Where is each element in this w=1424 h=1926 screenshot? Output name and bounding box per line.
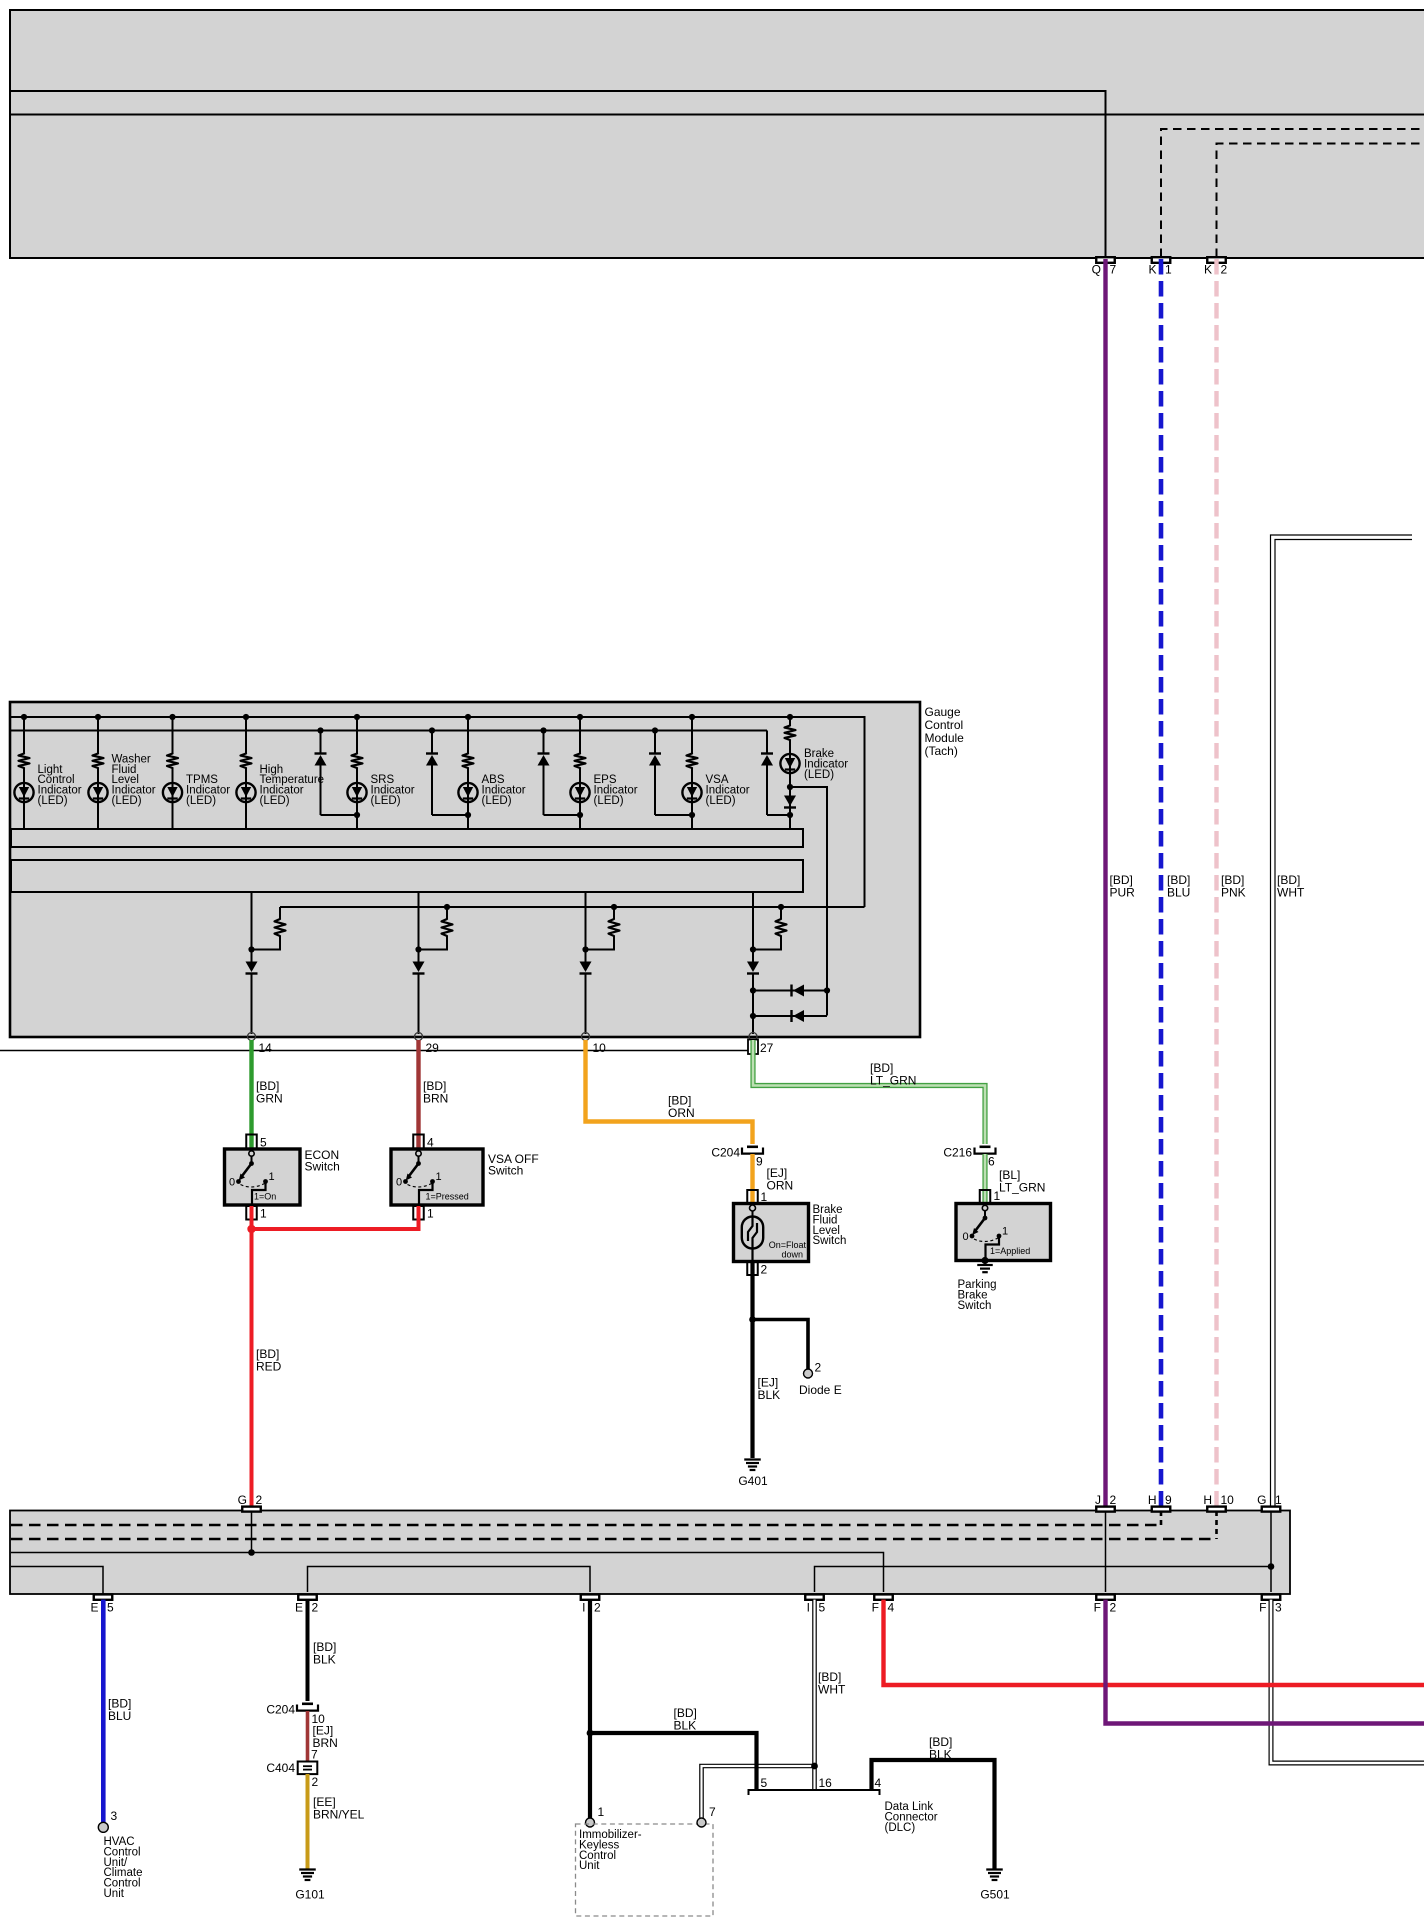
svg-text:29: 29 xyxy=(426,1041,440,1055)
SRS Indicator (LED) column xyxy=(347,714,414,829)
svg-text:F: F xyxy=(1259,1601,1266,1615)
connector G1 (top of band) xyxy=(1257,1493,1282,1512)
wire: internal solid to Q7 xyxy=(11,91,1106,257)
wire [EJ] BRN C204 to C404 xyxy=(308,1711,338,1762)
Light Indicator (LED) column xyxy=(14,714,81,829)
ground G401 xyxy=(738,1460,768,1489)
svg-text:I: I xyxy=(807,1601,810,1615)
internal link G1 to F3 xyxy=(1270,1509,1272,1592)
svg-text:GRN: GRN xyxy=(256,1092,283,1106)
svg-text:1=On: 1=On xyxy=(254,1192,276,1202)
svg-text:WHT: WHT xyxy=(1277,886,1305,900)
Parking Brake Switch xyxy=(956,1204,1051,1312)
connector F3 (bottom of band) xyxy=(1259,1594,1282,1614)
svg-text:BRN: BRN xyxy=(423,1092,448,1106)
svg-text:Module: Module xyxy=(925,731,965,745)
svg-text:7: 7 xyxy=(709,1805,716,1819)
internal link J2 to F2 xyxy=(1105,1509,1107,1592)
svg-text:(LED): (LED) xyxy=(804,769,834,781)
output column to pin 29 xyxy=(413,892,425,1034)
svg-text:2: 2 xyxy=(1110,1493,1117,1507)
output column to pin 10 xyxy=(580,892,592,1034)
svg-text:0: 0 xyxy=(963,1231,969,1243)
svg-text:(LED): (LED) xyxy=(706,795,736,807)
svg-text:BLU: BLU xyxy=(1167,886,1190,900)
connector I2 (bottom of band) xyxy=(581,1594,601,1614)
protection diode column feeding Brake LED xyxy=(761,731,790,816)
wire [EE] BRN/YEL C404 to G101 xyxy=(308,1774,365,1869)
svg-text:Switch: Switch xyxy=(488,1164,523,1178)
svg-text:16: 16 xyxy=(819,1776,833,1790)
svg-text:1: 1 xyxy=(269,1171,275,1183)
svg-text:2: 2 xyxy=(1110,1601,1117,1615)
svg-text:(LED): (LED) xyxy=(186,795,216,807)
svg-text:27: 27 xyxy=(760,1041,774,1055)
svg-text:1=Applied: 1=Applied xyxy=(990,1246,1030,1256)
svg-text:1: 1 xyxy=(598,1805,605,1819)
in-line connector C204 (pin 10) xyxy=(266,1703,325,1727)
svg-text:0: 0 xyxy=(396,1177,402,1189)
svg-text:BLK: BLK xyxy=(313,1653,336,1667)
svg-text:(DLC): (DLC) xyxy=(885,1822,916,1834)
connector H9 (top of band) xyxy=(1148,1493,1172,1512)
connector F2 (bottom of band) xyxy=(1094,1594,1117,1614)
svg-text:Switch: Switch xyxy=(813,1235,847,1247)
svg-text:BLK: BLK xyxy=(929,1748,952,1762)
ECON Switch xyxy=(225,1148,340,1205)
protection diode column feeding LED at x=357 xyxy=(315,727,358,815)
High Indicator (LED) column xyxy=(236,714,324,829)
svg-text:(LED): (LED) xyxy=(594,795,624,807)
svg-text:G101: G101 xyxy=(295,1888,325,1902)
svg-text:(LED): (LED) xyxy=(371,795,401,807)
svg-text:1=Pressed: 1=Pressed xyxy=(426,1192,469,1202)
wire [BD] BLK DLC pin 4 to G501 xyxy=(872,1735,995,1869)
output column to pin 27 xyxy=(747,892,759,1034)
Data Link Connector (DLC) bracket xyxy=(749,1776,938,1834)
svg-text:(LED): (LED) xyxy=(112,795,142,807)
svg-text:BLK: BLK xyxy=(674,1719,697,1733)
top junction band (off-page connector block) xyxy=(10,10,1424,258)
in-line connector C404 (pin 2) xyxy=(266,1761,318,1789)
module pin 14 xyxy=(248,1033,273,1056)
wire [BD] WHT I5 to DLC pin 16 and immobilizer pin 7 xyxy=(702,1600,846,1818)
svg-text:(LED): (LED) xyxy=(260,795,290,807)
internal bus B xyxy=(11,730,767,732)
wire [BD] PNK dashed from K2 to H10 xyxy=(1217,259,1246,1507)
svg-text:On=Float: On=Float xyxy=(769,1240,807,1250)
wire [BD] ORN pin10 to C204 xyxy=(586,1040,753,1144)
svg-text:LT_GRN: LT_GRN xyxy=(999,1181,1045,1195)
internal rectangle bar 1 xyxy=(11,829,803,847)
internal link E2 to I2 xyxy=(308,1567,591,1593)
svg-text:1: 1 xyxy=(1165,263,1172,277)
Brake Fluid Level Switch xyxy=(734,1204,847,1262)
svg-text:BRN/YEL: BRN/YEL xyxy=(313,1808,365,1822)
svg-text:G: G xyxy=(1257,1493,1266,1507)
output column to pin 14 xyxy=(246,892,258,1034)
wire [BD] PUR from Q7 to J2 xyxy=(1106,259,1136,1507)
svg-text:5: 5 xyxy=(107,1601,114,1615)
svg-text:Diode E: Diode E xyxy=(799,1383,842,1397)
svg-text:(LED): (LED) xyxy=(38,795,68,807)
Washer Fluid Indicator (LED) column xyxy=(88,714,155,829)
terminal 4 of VSA OFF switch xyxy=(413,1135,434,1152)
svg-text:Unit: Unit xyxy=(579,1860,600,1872)
wire stub from page edge to pin 27 terminal xyxy=(0,1050,748,1052)
output driver for pin 29: pull-up resistor branch xyxy=(419,904,453,950)
svg-text:7: 7 xyxy=(1110,263,1117,277)
svg-text:3: 3 xyxy=(111,1809,118,1823)
connector Q7 xyxy=(1092,257,1117,276)
wire: internal dashed to K1 xyxy=(1161,129,1424,257)
svg-text:6: 6 xyxy=(988,1155,995,1169)
terminal 2 of brake fluid level switch xyxy=(747,1262,767,1277)
svg-text:E: E xyxy=(90,1601,98,1615)
svg-text:4: 4 xyxy=(888,1601,895,1615)
svg-text:H: H xyxy=(1203,1493,1212,1507)
wire: internal solid bus across band xyxy=(11,114,1424,116)
terminal 1 of VSA OFF switch xyxy=(413,1206,434,1221)
svg-text:14: 14 xyxy=(259,1041,273,1055)
svg-text:(LED): (LED) xyxy=(482,795,512,807)
svg-text:3: 3 xyxy=(1275,1601,1282,1615)
terminal 1 of parking brake switch xyxy=(980,1189,1001,1204)
terminal at module pin 27 xyxy=(748,1040,758,1055)
internal link I5 to F3 xyxy=(815,1563,1275,1592)
connector G2 (top of band) xyxy=(238,1493,263,1512)
svg-text:2: 2 xyxy=(1221,263,1228,277)
svg-text:10: 10 xyxy=(593,1041,607,1055)
module pin 10 xyxy=(582,1033,607,1056)
svg-text:BLU: BLU xyxy=(108,1709,131,1723)
protection diode column feeding LED at x=580 xyxy=(538,727,581,815)
chassis ground of parking brake switch xyxy=(977,1265,993,1272)
connector K2 xyxy=(1204,257,1228,276)
svg-text:PNK: PNK xyxy=(1221,886,1246,900)
in-line connector C204 (pin 9) xyxy=(711,1146,763,1169)
internal power bus A xyxy=(11,717,865,907)
svg-text:2: 2 xyxy=(312,1601,319,1615)
svg-text:1: 1 xyxy=(260,1207,267,1221)
svg-text:Switch: Switch xyxy=(305,1160,340,1174)
svg-text:Control: Control xyxy=(925,718,964,732)
svg-text:C204: C204 xyxy=(266,1703,295,1717)
svg-text:Switch: Switch xyxy=(958,1300,992,1312)
Gauge Control Module (Tach) box xyxy=(10,702,964,1037)
svg-text:1: 1 xyxy=(427,1207,434,1221)
connector J2 (top of band) xyxy=(1095,1493,1117,1512)
TPMS Indicator (LED) column xyxy=(163,714,230,829)
wire [BD] WHT (double line) from top right to G1 xyxy=(1271,535,1413,1507)
terminal 1 of brake fluid level switch xyxy=(747,1190,767,1204)
Brake Indicator (LED) column xyxy=(780,714,848,829)
wire [BD] LT_GRN pin27 to C216 xyxy=(753,1040,985,1144)
immobilizer-keyless control unit pin 7 xyxy=(697,1805,716,1827)
svg-text:E: E xyxy=(295,1601,303,1615)
wire [EJ] ORN C204 to brake fluid level switch xyxy=(753,1154,794,1204)
wire [BD] BRN pin29 to VSA OFF switch xyxy=(419,1040,449,1151)
svg-text:ORN: ORN xyxy=(668,1106,695,1120)
wire [BD] BLU E5 to HVAC xyxy=(103,1600,131,1823)
svg-text:2: 2 xyxy=(761,1263,768,1277)
EPS Indicator (LED) column xyxy=(570,714,637,829)
svg-text:WHT: WHT xyxy=(818,1683,846,1697)
svg-text:F: F xyxy=(1094,1601,1101,1615)
module pin 29 xyxy=(415,1033,440,1056)
terminal 1 of ECON switch xyxy=(246,1206,267,1221)
VSA OFF Switch xyxy=(391,1149,539,1205)
svg-text:2: 2 xyxy=(815,1361,822,1375)
internal rectangle bar 2 xyxy=(11,860,803,892)
ground G501 xyxy=(980,1870,1010,1902)
svg-text:RED: RED xyxy=(256,1360,282,1374)
internal dashed bus 1 (to H9) xyxy=(11,1511,1161,1525)
Immobilizer-Keyless Control Unit (dashed box) xyxy=(576,1824,714,1916)
wire [BD] WHT F3 to right edge (double line) xyxy=(1271,1600,1424,1763)
ABS Indicator (LED) column xyxy=(458,714,525,829)
branch wire to Diode E xyxy=(753,1320,809,1370)
svg-text:7: 7 xyxy=(311,1748,318,1762)
VSA Indicator (LED) column xyxy=(682,714,749,829)
blocking diode to pin 27 (upper) xyxy=(750,985,827,997)
wire [EJ] BLK to G401 xyxy=(749,1262,780,1458)
svg-text:LT_GRN: LT_GRN xyxy=(870,1074,916,1088)
svg-text:1: 1 xyxy=(1002,1226,1008,1238)
svg-text:5: 5 xyxy=(761,1776,768,1790)
wire [BD] GRN pin14 to ECON switch xyxy=(252,1040,283,1151)
HVAC control unit pin 3 xyxy=(98,1809,142,1900)
svg-text:Q: Q xyxy=(1092,263,1101,277)
protection diode column feeding LED at x=692 xyxy=(649,727,692,815)
svg-text:H: H xyxy=(1148,1493,1157,1507)
diode below Brake LED xyxy=(784,796,796,808)
svg-text:2: 2 xyxy=(312,1775,319,1789)
svg-text:Unit: Unit xyxy=(104,1888,125,1900)
wire: internal dashed to K2 xyxy=(1217,144,1424,258)
wire [BD] BLK I2 to immobilizer and DLC pin 5 xyxy=(587,1600,757,1818)
svg-text:C204: C204 xyxy=(711,1146,740,1160)
connector F4 (bottom of band) xyxy=(872,1594,895,1614)
svg-text:ORN: ORN xyxy=(767,1179,794,1193)
bottom junction band xyxy=(10,1511,1290,1595)
svg-text:2: 2 xyxy=(256,1493,263,1507)
svg-text:G401: G401 xyxy=(738,1474,768,1488)
svg-text:K: K xyxy=(1204,263,1212,277)
terminal 5 of ECON switch xyxy=(246,1135,267,1152)
svg-text:I: I xyxy=(582,1601,585,1615)
protection diode column feeding LED at x=468 xyxy=(426,727,468,815)
in-line connector C216 (pin 6) xyxy=(943,1146,995,1169)
svg-text:C216: C216 xyxy=(943,1146,972,1160)
internal link to E5 xyxy=(11,1567,103,1595)
wire: brake LED anode to diode ladder xyxy=(790,787,830,1016)
connector I5 (bottom of band) xyxy=(805,1594,825,1614)
module pin 27 xyxy=(749,1033,774,1056)
svg-text:Gauge: Gauge xyxy=(925,705,961,719)
svg-text:9: 9 xyxy=(1165,1493,1172,1507)
internal dashed bus 2 (to H10) xyxy=(11,1511,1217,1539)
immobilizer-keyless control unit pin 1 xyxy=(586,1805,605,1827)
wire [BD] PUR F2 to right edge xyxy=(1106,1600,1424,1724)
wire [BL] LT_GRN C216 to parking brake switch xyxy=(985,1154,1045,1204)
svg-text:C404: C404 xyxy=(266,1761,295,1775)
svg-text:0: 0 xyxy=(229,1177,235,1189)
ground G101 xyxy=(295,1870,325,1902)
output driver for pin 14: pull-up resistor branch xyxy=(252,907,286,950)
svg-text:4: 4 xyxy=(875,1776,882,1790)
connector H10 (top of band) xyxy=(1203,1493,1234,1512)
svg-text:(Tach): (Tach) xyxy=(925,744,958,758)
svg-text:2: 2 xyxy=(594,1601,601,1615)
svg-text:down: down xyxy=(781,1250,803,1260)
blocking diode to pin 27 (lower) xyxy=(750,1010,827,1022)
svg-text:BLK: BLK xyxy=(758,1388,781,1402)
svg-text:1: 1 xyxy=(994,1189,1001,1203)
internal bus E (resistor supply) xyxy=(280,906,865,908)
svg-text:1: 1 xyxy=(1275,1493,1282,1507)
svg-text:G501: G501 xyxy=(980,1888,1010,1902)
Diode E terminal 2 xyxy=(799,1361,842,1398)
wire [BD] BLU dashed from K1 to H9 xyxy=(1161,259,1190,1507)
svg-text:F: F xyxy=(872,1601,879,1615)
connector K1 xyxy=(1148,257,1172,276)
output driver for pin 10: pull-up resistor branch xyxy=(586,904,620,950)
svg-text:10: 10 xyxy=(1221,1493,1235,1507)
svg-text:J: J xyxy=(1095,1493,1101,1507)
internal link G2 to F4 xyxy=(11,1509,884,1592)
wire [BD] BLK E2 to C204 xyxy=(308,1600,337,1701)
connector E2 (bottom of band) xyxy=(295,1594,319,1614)
svg-text:PUR: PUR xyxy=(1110,886,1136,900)
svg-text:5: 5 xyxy=(819,1601,826,1615)
output driver for pin 27: pull-up resistor branch xyxy=(753,904,787,950)
svg-text:1: 1 xyxy=(436,1171,442,1183)
svg-text:G: G xyxy=(238,1493,247,1507)
wire [BD] RED F4 to right edge xyxy=(884,1600,1424,1685)
wire [BD] RED from switches to G2 xyxy=(247,1206,418,1507)
svg-text:9: 9 xyxy=(756,1155,763,1169)
svg-text:K: K xyxy=(1148,263,1156,277)
connector E5 (bottom of band) xyxy=(90,1594,114,1614)
